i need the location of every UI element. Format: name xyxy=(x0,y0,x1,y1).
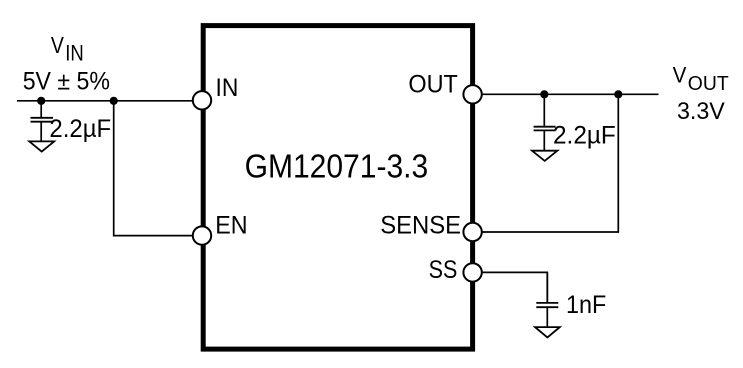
svg-text:OUT: OUT xyxy=(688,72,729,95)
svg-text:V: V xyxy=(51,32,65,58)
node: output rail / C2 junction xyxy=(540,90,548,98)
svg-text:V: V xyxy=(673,63,687,88)
pin IN terminal circle xyxy=(193,91,211,109)
svg-text:5V ± 5%: 5V ± 5% xyxy=(23,68,110,95)
capacitor C3 (soft-start 1nF) xyxy=(536,272,558,326)
svg-text:OUT: OUT xyxy=(408,70,458,98)
label: C1 value 2.2uF xyxy=(49,116,111,143)
label: pin IN xyxy=(216,74,239,102)
label: pin EN xyxy=(215,211,247,239)
pin SS terminal circle xyxy=(463,263,481,281)
label: pin OUT xyxy=(408,70,458,98)
label: C3 value 1nF xyxy=(566,292,606,319)
pin OUT terminal circle xyxy=(463,85,481,103)
svg-text:1nF: 1nF xyxy=(566,292,606,319)
svg-text:IN: IN xyxy=(65,40,84,65)
label: IC part number GM12071-3.3 xyxy=(245,148,429,185)
label: input spec 5V +/- 5% xyxy=(23,68,110,95)
ground (output cap) xyxy=(532,151,557,161)
pin SENSE terminal circle xyxy=(463,223,481,241)
wire: VIN input rail xyxy=(17,100,193,102)
svg-text:GM12071-3.3: GM12071-3.3 xyxy=(245,148,429,185)
label: net VIN xyxy=(51,32,84,65)
svg-text:SENSE: SENSE xyxy=(380,211,461,239)
svg-text:3.3V: 3.3V xyxy=(677,98,725,125)
node: output rail / SENSE junction xyxy=(614,90,622,98)
ground (input cap) xyxy=(29,141,54,151)
node: input rail / C1 junction xyxy=(37,97,45,105)
svg-text:EN: EN xyxy=(215,211,247,239)
label: net VOUT xyxy=(673,63,730,95)
capacitor C2 (output 2.2uF) xyxy=(534,94,556,150)
label: pin SS xyxy=(429,256,458,284)
capacitor C1 (input 2.2uF) xyxy=(31,101,54,141)
wire: EN loop (from input rail down and right to EN pin) xyxy=(114,101,193,236)
svg-text:2.2µF: 2.2µF xyxy=(553,123,616,150)
wire: VOUT output rail xyxy=(482,93,659,95)
label: output voltage 3.3V xyxy=(677,98,725,125)
ground (soft-start cap) xyxy=(535,327,560,337)
pin EN terminal circle xyxy=(193,226,211,244)
wire: SS pin to soft-start capacitor xyxy=(482,272,547,302)
svg-text:IN: IN xyxy=(216,74,239,102)
svg-text:2.2µF: 2.2µF xyxy=(49,116,111,143)
label: pin SENSE xyxy=(380,211,461,239)
label: C2 value 2.2uF xyxy=(553,123,616,150)
regulator IC U1 body xyxy=(203,26,472,350)
wire: SENSE feedback loop xyxy=(482,94,618,232)
svg-text:SS: SS xyxy=(429,256,458,284)
node: input rail / EN junction xyxy=(110,97,118,105)
